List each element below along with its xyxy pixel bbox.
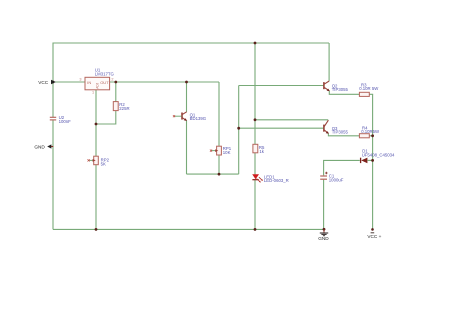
svg-text:UF5408_C45034: UF5408_C45034 (362, 153, 395, 158)
svg-text:2: 2 (111, 78, 113, 82)
svg-text:0.10R 5W: 0.10R 5W (359, 86, 379, 91)
wire Q2 emitter to R3 (329, 91, 359, 94)
svg-text:10K: 10K (223, 150, 231, 155)
diode D1 (361, 158, 368, 164)
junction RP2 / GND rail (95, 228, 98, 231)
transistor Q2 TIP3055 (324, 81, 330, 91)
junction C1 / GND rail (323, 228, 326, 231)
junction OUT / Q1 collector (185, 81, 188, 84)
svg-text:TIP3055: TIP3055 (332, 87, 349, 92)
wire left column lower (C-U2 to bottom rail) (52, 120, 54, 229)
wire RP1 top drop (218, 82, 220, 146)
svg-text:3: 3 (79, 78, 81, 82)
svg-text:GND: GND (318, 236, 329, 241)
svg-text:1: 1 (92, 90, 94, 94)
resistor R3 (359, 92, 369, 96)
label RP2 5K (101, 158, 110, 167)
svg-text:225R: 225R (119, 106, 129, 111)
svg-text:5K: 5K (101, 161, 106, 166)
svg-text:ADJ: ADJ (96, 82, 100, 88)
resistor R5 (253, 144, 258, 153)
label RP1 10K (223, 146, 232, 155)
wire D1 cathode run to C1 (324, 160, 360, 175)
net flag VCC + (output) (367, 228, 381, 239)
wire Q1 collector drop (186, 82, 188, 112)
junction RP1 bottom (218, 173, 221, 176)
wire Q3 collector run (255, 119, 328, 121)
label LED1 LED-0603_R (264, 174, 289, 183)
potentiometer RP1 (210, 146, 222, 155)
wire Q2 collector to VCC rail (328, 43, 330, 81)
svg-text:TIP3055: TIP3055 (332, 130, 349, 135)
label C1 1000uF (329, 174, 344, 183)
wire Q3 emitter to R4 (328, 133, 359, 135)
wire R4 to output column (369, 135, 372, 137)
junction VCC input node (52, 81, 55, 84)
svg-text:0.10R5W: 0.10R5W (361, 129, 380, 134)
label R4 0.10R5W (361, 125, 380, 134)
svg-text:VCC +: VCC + (367, 234, 381, 239)
label R5 1k (259, 145, 265, 154)
svg-text:BD139G: BD139G (190, 116, 207, 121)
wire left column upper (VCC to C-U2) (52, 43, 54, 118)
wire bottom GND rail (53, 228, 324, 230)
wire LED1 to rail (254, 180, 256, 230)
label U1 LM317TG (95, 67, 115, 76)
svg-text:OUT: OUT (100, 80, 109, 85)
label Q1 BD139G (190, 112, 207, 121)
LED LED1 (252, 174, 263, 182)
capacitor U2 (50, 117, 56, 120)
junction ADJ / R2 (95, 123, 98, 126)
wire top VCC rail (53, 42, 329, 44)
label R3 0.10R 5W (359, 82, 379, 91)
svg-text:LM317TG: LM317TG (95, 71, 115, 76)
junction VCC rail / R5 column (254, 42, 257, 45)
wire U1 OUT to RP1 corner (110, 81, 219, 83)
junction U1 OUT / R2 (114, 81, 117, 84)
label Q2 TIP3055 (332, 83, 349, 92)
wire emitter bottom run (187, 173, 239, 175)
capacitor C1 (polarized) (320, 172, 327, 180)
wire output column (372, 94, 374, 229)
transistor Q3 TIP3055 (324, 120, 329, 134)
junction base column / Q3 base (237, 127, 240, 130)
ground symbol GND (bottom) (318, 229, 329, 241)
wire RP2 bottom to rail (95, 165, 97, 230)
label R2 225R (119, 102, 129, 111)
junction D1 anode / output column (371, 159, 374, 162)
wire VCC rail to R5 (254, 43, 256, 144)
wire Q3 base (239, 127, 324, 129)
wire R5 to LED1 (254, 153, 256, 175)
label D1 UF5408_C45034 (362, 149, 395, 158)
resistor R4 (359, 134, 369, 138)
net flag GND (left) (34, 144, 53, 149)
wire C1 bottom to GND (323, 180, 325, 230)
svg-text:VCC: VCC (38, 80, 49, 85)
net flag VCC (input) (38, 80, 56, 85)
label Q3 TIP3055 (332, 126, 349, 135)
wire Q1 emitter down (186, 120, 188, 174)
junction R4 / output column (371, 134, 374, 137)
svg-text:1000uF: 1000uF (329, 177, 344, 182)
junction LED column / GND rail (254, 228, 257, 231)
wire VCC to U1 IN (53, 81, 85, 83)
wire R2 bottom to ADJ column (96, 111, 116, 124)
transistor Q1 BD139G (173, 112, 187, 121)
potentiometer RP2 (88, 156, 99, 165)
svg-text:GND: GND (34, 144, 45, 149)
junction R5 column / Q3 collector (254, 118, 257, 121)
wire Q2 base (239, 85, 324, 87)
wire base feed column (238, 86, 240, 175)
wire ADJ pin to RP2 (95, 90, 97, 156)
resistor R2 (113, 102, 118, 111)
svg-text:LED-0603_R: LED-0603_R (264, 178, 289, 183)
wire R3 to output column (369, 93, 372, 96)
regulator U1 body (85, 77, 110, 90)
svg-text:100nF: 100nF (59, 119, 72, 124)
wire RP1 bottom (218, 155, 220, 174)
label U2 100nF (59, 115, 72, 124)
svg-text:IN: IN (87, 80, 91, 85)
wire D1 anode to output column (368, 159, 373, 161)
wire R2 top (115, 82, 117, 102)
